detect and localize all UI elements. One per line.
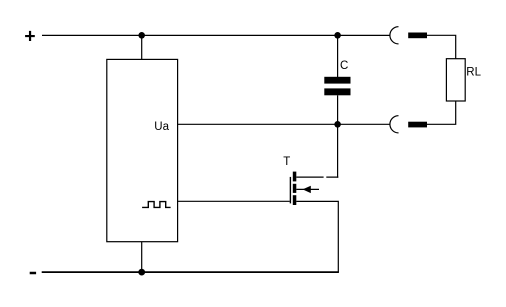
svg-text:RL: RL	[466, 67, 481, 79]
svg-text:Ua: Ua	[154, 121, 169, 133]
svg-text:C: C	[340, 60, 348, 72]
svg-text:T: T	[283, 156, 290, 168]
